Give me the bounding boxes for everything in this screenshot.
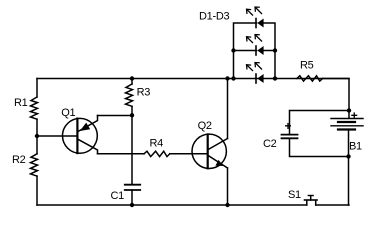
svg-text:C2: C2 — [263, 138, 277, 150]
resistor R3 — [126, 84, 133, 106]
wire R3 top lead — [131, 79, 133, 85]
wire LED middle branch left — [234, 50, 257, 52]
label R2 — [12, 154, 26, 166]
transistor Q1 — [63, 116, 98, 154]
svg-text:Q1: Q1 — [61, 107, 75, 119]
svg-text:S1: S1 — [288, 189, 301, 201]
capacitor C1 — [125, 185, 140, 205]
wire R4 to Q2 base — [170, 153, 207, 155]
label R4 — [150, 137, 164, 149]
svg-text:+: + — [285, 119, 292, 133]
wire top horizontal rail — [37, 78, 349, 80]
wire battery bottom to lower-right corner — [348, 157, 350, 206]
label R5 — [300, 60, 314, 72]
wire left rail between R1 and node — [36, 119, 38, 136]
svg-text:R1: R1 — [14, 97, 28, 109]
LED D1 (top) — [247, 7, 264, 28]
node R3 top junction — [130, 76, 134, 80]
svg-text:R3: R3 — [137, 86, 151, 98]
label R3 — [137, 86, 151, 98]
label C1 — [111, 190, 125, 202]
node LED left rail bottom junction — [231, 76, 235, 80]
LED D3 (bottom) — [247, 63, 264, 84]
resistor R2 — [31, 154, 38, 176]
label B1 — [349, 141, 362, 153]
wire Q1 collector run to R4 — [98, 153, 145, 155]
label D1-D3 — [199, 11, 229, 23]
svg-text:D1-D3: D1-D3 — [199, 11, 229, 23]
battery B1 — [331, 119, 363, 157]
wire left rail between node and R2 — [36, 136, 38, 154]
transistor Q2 — [192, 134, 228, 168]
label plus sign of B1 — [351, 108, 358, 122]
wire LED right rail — [264, 23, 276, 79]
switch S1 — [305, 196, 318, 206]
svg-text:Q2: Q2 — [198, 120, 212, 132]
svg-text:R4: R4 — [150, 137, 164, 149]
wire LED left rail — [234, 23, 257, 79]
resistor R4 — [144, 151, 170, 156]
node Q2 collector top junction — [225, 76, 229, 80]
label Q2 — [198, 120, 212, 132]
svg-text:R5: R5 — [300, 60, 314, 72]
node LED left rail middle junction — [231, 48, 235, 52]
wire bottom rail left of S1 — [37, 204, 307, 206]
wire bottom rail right of S1 — [316, 204, 349, 206]
wire left vertical rail top segment — [36, 79, 38, 98]
svg-text:B1: B1 — [349, 141, 362, 153]
wire Q2 collector vertical — [227, 79, 229, 139]
svg-text:+: + — [351, 108, 358, 122]
capacitor C2 — [282, 135, 349, 157]
wire C2 top branch — [290, 111, 350, 135]
node R1/R2/Q1-base junction — [35, 134, 39, 138]
wire Q1 emitter to node — [98, 115, 133, 117]
node LED right rail bottom junction — [273, 76, 277, 80]
LED D2 (middle) — [247, 35, 264, 56]
node battery/C2 top junction — [347, 108, 351, 112]
wire Q2 emitter vertical — [227, 168, 229, 205]
node Q2 emitter bottom junction — [225, 203, 229, 207]
wire R3 bottom lead down to C1 (crosses collector wire, no dot) — [131, 106, 133, 184]
wire LED middle branch right — [264, 50, 276, 52]
label Q1 — [61, 107, 75, 119]
wire R5 to right rail corner and down to battery — [323, 79, 349, 118]
svg-text:C1: C1 — [111, 190, 125, 202]
node LED right rail middle junction — [273, 48, 277, 52]
node C1 bottom junction — [130, 203, 134, 207]
label R1 — [14, 97, 28, 109]
label S1 — [288, 189, 301, 201]
label plus sign of C2 — [285, 119, 292, 133]
resistor R5 — [297, 76, 323, 81]
svg-text:R2: R2 — [12, 154, 26, 166]
label C2 — [263, 138, 277, 150]
wire left rail bottom segment — [36, 176, 38, 205]
wire Q1 base — [37, 135, 77, 137]
node Q1-emitter/R3/C1 junction — [130, 113, 134, 117]
resistor R1 — [31, 97, 38, 119]
node battery/C2 bottom junction — [346, 154, 350, 158]
